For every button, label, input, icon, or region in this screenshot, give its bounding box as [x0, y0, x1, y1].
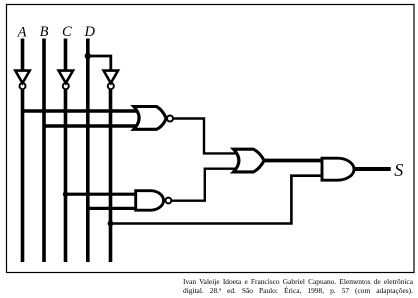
wire NOR U4 output to OR U6 top input	[173, 119, 237, 154]
wire input C vertical	[64, 39, 68, 71]
wire NOR U4 input bottom from B	[44, 124, 139, 128]
wire NAND U5 input bottom from D	[88, 207, 137, 210]
svg-text:C: C	[62, 24, 72, 40]
wire NOR U4 input top from A	[23, 109, 139, 113]
OR gate U6	[234, 149, 265, 172]
wire NAND U5 output to OR U6 bottom input	[171, 169, 237, 201]
wire A inverted vertical	[21, 89, 25, 262]
NAND gate U5	[136, 191, 172, 211]
wire inverted D to AND U7 bottom input	[111, 176, 324, 224]
wire OR U6 output to AND U7 top input	[264, 159, 323, 163]
svg-text:B: B	[40, 24, 49, 40]
wire C inverted vertical	[64, 89, 68, 262]
inverter U3 (input D)	[104, 71, 118, 90]
wire AND U7 output to S	[354, 167, 391, 171]
wire NAND U5 input top from C	[66, 193, 138, 196]
wire input B vertical	[42, 39, 46, 263]
svg-text:A: A	[17, 24, 27, 40]
NOR gate U4	[134, 107, 173, 130]
svg-text:S: S	[394, 160, 403, 180]
node junction on C	[63, 192, 68, 197]
wire input A vertical	[21, 39, 25, 71]
node junction on inverted D	[108, 221, 114, 227]
wire input D vertical	[86, 39, 90, 263]
wire D inverted vertical	[109, 89, 113, 262]
inverter U1 (input A)	[15, 71, 29, 90]
wire D branch to inverter	[88, 56, 111, 70]
citation caption	[183, 277, 413, 296]
node junction on D	[85, 53, 91, 59]
svg-text:D: D	[83, 24, 95, 40]
AND gate U7	[322, 158, 354, 180]
inverter U2 (input C)	[59, 71, 73, 90]
